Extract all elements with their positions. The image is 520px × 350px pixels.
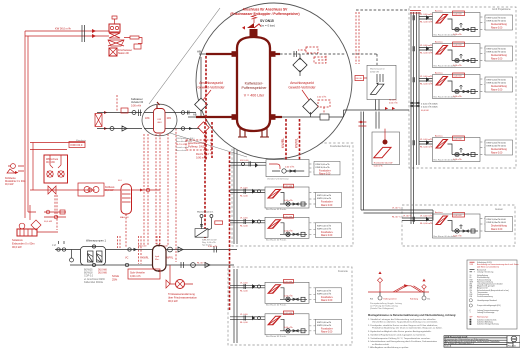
svg-text:Solekreis: Solekreis — [12, 238, 23, 242]
svg-text:Wärmetauscher 1: Wärmetauscher 1 — [197, 211, 214, 214]
svg-text:KW 0,00: KW 0,00 — [138, 246, 147, 248]
svg-text:Wei.: Wei. — [155, 259, 160, 261]
svg-text:Rückkühler 00,0 kW: Rückkühler 00,0 kW — [374, 162, 393, 165]
svg-text:AB: AB — [197, 50, 201, 54]
svg-text:01: 01 — [514, 346, 516, 348]
svg-text:(m = 0 bar): (m = 0 bar) — [261, 24, 275, 28]
svg-text:Pumpe drehzahlgeregelt (FU): Pumpe drehzahlgeregelt (FU) — [477, 304, 501, 307]
svg-text:KW-Speicher 400 l: KW-Speicher 400 l — [176, 137, 195, 140]
svg-text:Fussboden-: Fussboden- — [319, 170, 331, 172]
svg-text:Puffersp. DN25: Puffersp. DN25 — [188, 145, 206, 149]
svg-text:Wärmetauscher: Wärmetauscher — [370, 68, 385, 71]
svg-text:P1 Schema M. Obermayerhaus 1:1: P1 Schema M. Obermayerhaus 1:1 — [445, 342, 474, 345]
svg-text:VL 00 °C: VL 00 °C — [403, 216, 412, 218]
svg-text:Station 00: Station 00 — [118, 52, 129, 55]
svg-text:1. Sämtliche Leitungen der Kä: 1. Sämtliche Leitungen der Kälteverteilu… — [368, 318, 436, 321]
svg-text:Typ 00-00: Typ 00-00 — [202, 245, 212, 247]
svg-text:0,00 m³/h: 0,00 m³/h — [317, 96, 327, 99]
svg-text:00,0 kW: 00,0 kW — [421, 110, 429, 112]
svg-text:Σ 0,00 m³/h DN25: Σ 0,00 m³/h DN25 — [421, 103, 438, 106]
svg-text:Umwälzpumpe Standard: Umwälzpumpe Standard — [477, 299, 497, 302]
svg-text:× 2: × 2 — [52, 243, 56, 247]
svg-text:Wärmepumpe: Wärmepumpe — [477, 317, 488, 319]
svg-text:Anschlusspunkt: Anschlusspunkt — [199, 81, 223, 85]
svg-text:(alle Werte zu kontrollieren): (alle Werte zu kontrollieren) — [477, 265, 499, 268]
svg-text:KWRL: KWRL — [281, 138, 285, 148]
svg-text:Grob Projektname: Grob Projektname — [492, 8, 511, 11]
svg-text:AB: AB — [193, 113, 197, 117]
svg-text:2. Druckprobe: sämtliche Krei: 2. Druckprobe: sämtliche Kreise vor dem … — [368, 324, 438, 327]
svg-text:Fussbodenheizung: Fussbodenheizung — [330, 145, 351, 148]
svg-text:400l: 400l — [157, 122, 162, 124]
svg-text:5. Vorlauftemperatur Kühlung: 5. Vorlauftemperatur Kühlung 16 °C, Taup… — [368, 337, 431, 340]
svg-text:zur Führung der Kälte-Leitung: zur Führung der Kälte-Leitung — [370, 305, 398, 308]
svg-text:Kühlung: Kühlung — [410, 299, 419, 301]
svg-text:Gewebt-Verbinder: Gewebt-Verbinder — [197, 86, 225, 90]
svg-text:0,00 m³/h: 0,00 m³/h — [285, 166, 295, 169]
svg-text:0,00 m³/h: 0,00 m³/h — [374, 164, 384, 167]
svg-text:00,0 kW: 00,0 kW — [44, 221, 53, 223]
svg-text:Anschluss für Anschluss SV: Anschluss für Anschluss SV — [243, 8, 289, 12]
svg-text:SOLE: SOLE — [112, 274, 119, 278]
svg-text:an Bauherrschaft.: an Bauherrschaft. — [372, 343, 390, 346]
svg-text:7. Alle Angaben vor Ausführun: 7. Alle Angaben vor Ausführung zu prüfen… — [368, 346, 409, 349]
svg-text:VC: VC — [125, 257, 129, 260]
svg-text:3. Hydraulischer Abgleich all: 3. Hydraulischer Abgleich aller Kreise g… — [368, 330, 432, 333]
svg-text:10%: 10% — [167, 118, 172, 120]
svg-text:KWV 0,00 m³/h: KWV 0,00 m³/h — [316, 163, 331, 166]
svg-text:Durchflussmessung: Durchflussmessung — [477, 296, 493, 298]
svg-text:KWRL: KWRL — [142, 258, 149, 260]
svg-text:00,0 kW: 00,0 kW — [12, 245, 22, 249]
svg-text:00,0 kW: 00,0 kW — [46, 161, 56, 164]
svg-text:V = 400 Liter: V = 400 Liter — [244, 94, 265, 98]
svg-text:0,00 m³/h: 0,00 m³/h — [389, 101, 399, 104]
svg-text:RL/VL 6/12 °C: RL/VL 6/12 °C — [176, 144, 190, 146]
svg-text:Anschluss DN25: Anschluss DN25 — [176, 140, 193, 143]
svg-text:Index A: Index A — [445, 345, 452, 348]
svg-text:00/00 kW: 00/00 kW — [370, 71, 379, 73]
svg-text:10%: 10% — [145, 118, 150, 120]
svg-text:00,0 kW: 00,0 kW — [168, 299, 178, 303]
svg-text:Vorschriften zu dämmen, Taupun: Vorschriften zu dämmen, Taupunktuntersch… — [372, 321, 438, 324]
svg-text:Wärmepumpen 1: Wärmepumpen 1 — [86, 239, 106, 243]
svg-text:(Frischwasser Entkoppler / Puf: (Frischwasser Entkoppler / Puffernspeich… — [230, 12, 299, 16]
svg-text:0,00 m³/h: 0,00 m³/h — [130, 275, 141, 278]
svg-text:Kühldecke: Kühldecke — [5, 178, 16, 180]
svg-text:Trinkwassererwärmung: Trinkwassererwärmung — [168, 292, 195, 296]
svg-text:MAG 00l: MAG 00l — [120, 216, 129, 219]
svg-text:Protokoll an Bauleitung. Der D: Protokoll an Bauleitung. Der Druck ist w… — [372, 327, 443, 330]
svg-text:Raum 0.00: Raum 0.00 — [319, 173, 331, 175]
svg-text:00,0 kW: 00,0 kW — [5, 184, 14, 186]
svg-text:Ausschnitt: Ausschnitt — [176, 149, 186, 152]
svg-text:Fussnote: Fussnote — [338, 270, 349, 273]
svg-text:KW 00,0 m³/h: KW 00,0 m³/h — [55, 27, 71, 31]
svg-text:KWR 0,00 m³/h: KWR 0,00 m³/h — [316, 166, 331, 169]
svg-text:Rückkühler 0 x 00m: Rückkühler 0 x 00m — [5, 180, 25, 183]
svg-text:00,0 kW: 00,0 kW — [98, 272, 108, 275]
svg-text:über Frischwasserstation: über Frischwasserstation — [168, 295, 197, 299]
svg-text:25%: 25% — [112, 277, 118, 281]
svg-text:KWN 00,0: KWN 00,0 — [71, 143, 83, 147]
svg-text:OB: OB — [512, 337, 516, 341]
svg-text:hydr: hydr — [155, 255, 160, 258]
svg-text:RL 00 °C: RL 00 °C — [392, 217, 401, 219]
svg-text:00 kW: 00 kW — [356, 78, 362, 80]
svg-text:Kältemittel R410a: Kältemittel R410a — [84, 281, 104, 284]
svg-text:4. Sämtliche Regelarmaturen s: 4. Sämtliche Regelarmaturen sind zugängl… — [368, 333, 426, 336]
svg-text:Prinzipdarstellung Umgeh. Leit: Prinzipdarstellung Umgeh. Leitung — [370, 302, 403, 305]
svg-text:Kühlkreis: Kühlkreis — [105, 186, 115, 189]
svg-text:Erdsonden 0 x 00m: Erdsonden 0 x 00m — [12, 241, 35, 245]
svg-text:Gewebt-Verbinder: Gewebt-Verbinder — [288, 86, 316, 90]
svg-text:VL 00 °C: VL 00 °C — [392, 208, 401, 210]
svg-text:WPRL: WPRL — [167, 258, 174, 260]
svg-text:(Details Plan Kältegeraet): (Details Plan Kältegeraet) — [370, 307, 394, 310]
svg-text:Leitung Druckanzeige: Leitung Druckanzeige — [477, 311, 494, 314]
svg-text:SV DN15: SV DN15 — [260, 19, 274, 23]
svg-text:RL 00°C: RL 00°C — [389, 100, 397, 102]
svg-text:6. Inbetriebnahme und Einregu: 6. Inbetriebnahme und Einregulierung dur… — [368, 340, 438, 343]
svg-text:Anschlusspunkt: Anschlusspunkt — [290, 81, 314, 85]
svg-text:Kältespeicher: Kältespeicher — [384, 298, 398, 301]
svg-text:KW 0,00: KW 0,00 — [240, 160, 249, 162]
svg-text:Verteiler UG 00 Kreise: Verteiler UG 00 Kreise — [267, 178, 290, 181]
svg-text:Zubehöre Einzige Buchung: Zubehöre Einzige Buchung — [477, 324, 499, 326]
svg-text:Details siehe: Details siehe — [176, 146, 189, 149]
svg-text:KWVL: KWVL — [295, 138, 299, 148]
svg-text:Σ 0,00 m³/h DN25: Σ 0,00 m³/h DN25 — [421, 106, 438, 109]
svg-text:Aussen: Aussen — [495, 208, 504, 211]
svg-text:Puffernspeicher: Puffernspeicher — [241, 86, 267, 90]
svg-text:Montagehinweise zu Betonkernak: Montagehinweise zu Betonkernaktivierung … — [368, 314, 456, 317]
svg-text:0,00 m³/h: 0,00 m³/h — [131, 104, 142, 107]
svg-text:Leitung / Verrohrung: Leitung / Verrohrung — [477, 271, 493, 274]
svg-text:00 l: 00 l — [118, 180, 122, 182]
